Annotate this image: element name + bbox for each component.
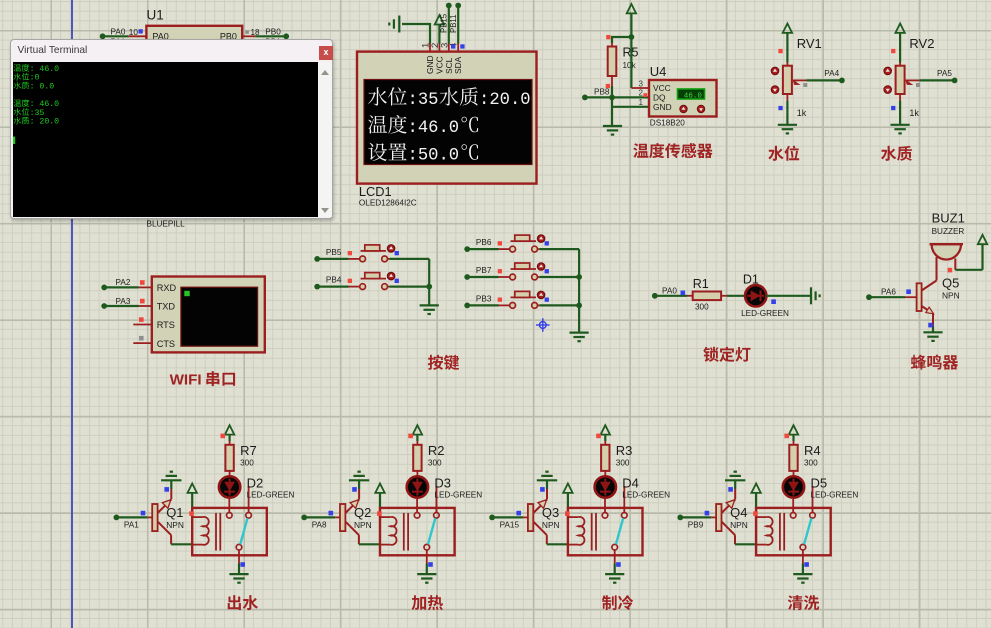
relay contacts Q4 <box>790 486 815 550</box>
svg-text:Q3: Q3 <box>542 505 559 520</box>
transistor Q5 NPN <box>917 257 960 332</box>
ground below relay Q4 <box>793 574 812 583</box>
junction PB7 <box>576 274 582 280</box>
svg-text:PB7: PB7 <box>476 266 492 275</box>
svg-text:DS18B20: DS18B20 <box>650 118 685 127</box>
svg-text:D4: D4 <box>622 476 639 491</box>
label 水位 <box>768 146 799 161</box>
svg-text:PB15: PB15 <box>440 13 449 33</box>
wire PB9 to Q4 base <box>677 511 716 530</box>
ground below PB4 <box>420 305 439 314</box>
wire relay Q4 to ground <box>803 550 809 574</box>
svg-text:1: 1 <box>639 98 643 107</box>
terminal title <box>17 45 87 56</box>
wire D2 to relay <box>228 498 230 513</box>
power arrow at buzzer <box>978 235 987 244</box>
svg-text:LED-GREEN: LED-GREEN <box>434 491 482 500</box>
terminal text line1 <box>14 64 60 74</box>
module WIFI serial port <box>152 277 265 353</box>
led D2 LED-GREEN <box>219 476 295 500</box>
wire PA15 to Q3 base <box>489 511 528 530</box>
relay contacts Q2 <box>414 486 439 550</box>
ground below RV2 <box>891 125 910 134</box>
push button PB3 <box>464 291 579 308</box>
wire PA2 to RXD <box>101 278 152 290</box>
resistor R5 10k <box>606 35 639 97</box>
wire PA0 to R1 <box>652 287 687 299</box>
LCD1 pin numbers 1 2 3 4 <box>421 43 460 48</box>
pin CTS <box>133 336 152 343</box>
resistor R1 300 <box>687 277 727 312</box>
junction PB4 <box>426 284 432 290</box>
svg-text:PA6: PA6 <box>881 288 896 297</box>
svg-text:PA2: PA2 <box>116 278 131 287</box>
wire LCD1 VCC to power <box>438 25 440 53</box>
sheet border line <box>71 0 73 628</box>
wire U1 pin PA0 <box>100 27 147 39</box>
svg-text:PB6: PB6 <box>476 238 492 247</box>
wire RV1 wiper to PA4 <box>803 69 845 87</box>
svg-text:NPN: NPN <box>730 520 748 530</box>
wire PA3 to TXD <box>101 297 152 309</box>
svg-text:RTS: RTS <box>157 320 175 330</box>
terminal text line3 <box>14 82 55 92</box>
transistor Q1 NPN <box>152 480 193 544</box>
wire LCD1 GND to ground <box>402 24 430 52</box>
svg-text:PA1: PA1 <box>124 521 139 530</box>
svg-text:D1: D1 <box>743 273 759 287</box>
power arrow above R7 <box>221 425 235 441</box>
led D3 LED-GREEN <box>407 476 483 500</box>
svg-text:1k: 1k <box>797 108 807 118</box>
svg-text::35: :35 <box>30 109 45 118</box>
node PB8 <box>582 87 615 100</box>
svg-text:NPN: NPN <box>542 520 560 530</box>
LCD1 pin names GND VCC SCL SDA <box>425 55 463 74</box>
ground right of D1 <box>811 287 820 304</box>
wire D1 to ground <box>766 295 811 297</box>
ground below relay Q2 <box>417 574 436 583</box>
ground above Q1 <box>161 472 181 481</box>
svg-text:3: 3 <box>639 79 643 88</box>
svg-text:300: 300 <box>240 459 254 468</box>
svg-text:300: 300 <box>804 459 818 468</box>
svg-text:2: 2 <box>639 89 643 98</box>
origin marker <box>536 318 550 332</box>
OLED display LCD1 <box>357 52 537 208</box>
svg-text:BLUEPILL: BLUEPILL <box>147 219 186 228</box>
svg-text:46.0: 46.0 <box>684 92 703 100</box>
svg-text:Q4: Q4 <box>730 505 747 520</box>
push button PB7 <box>464 263 579 280</box>
svg-text:10: 10 <box>129 28 139 37</box>
power arrow above RV1 <box>783 24 792 63</box>
relay coil Q4 <box>753 508 830 555</box>
svg-text:PB11: PB11 <box>449 15 458 34</box>
wire D3 to relay <box>416 498 418 513</box>
svg-text:D5: D5 <box>811 476 828 491</box>
wire D5 to relay <box>792 498 794 513</box>
push button PB6 <box>464 235 579 252</box>
terminal console <box>13 62 319 217</box>
wire RV2 wiper to PA5 <box>916 69 957 87</box>
wire buttons PB5/PB4 to ground <box>428 259 430 306</box>
wire PB8 to ground <box>611 97 613 126</box>
svg-text:PB0: PB0 <box>265 27 281 36</box>
svg-text:R7: R7 <box>240 443 257 458</box>
svg-text:R4: R4 <box>804 443 821 458</box>
svg-text:TXD: TXD <box>157 302 176 312</box>
svg-text:Q1: Q1 <box>166 505 183 520</box>
pin RTS <box>133 317 152 324</box>
label 蜂鸣器 <box>911 355 958 370</box>
svg-text:300: 300 <box>695 303 709 312</box>
svg-text:D3: D3 <box>434 476 451 491</box>
led D1 LED-GREEN <box>741 273 789 319</box>
RV2 adjust buttons <box>884 67 892 93</box>
wire PA8 to Q2 base <box>301 511 340 530</box>
svg-text:NPN: NPN <box>942 291 960 301</box>
svg-text:R3: R3 <box>616 443 633 458</box>
wire relay Q2 to ground <box>427 550 433 574</box>
LCD1 screen text line1 <box>368 87 530 110</box>
svg-text:300: 300 <box>616 459 630 468</box>
wire SCL net PB15 <box>440 3 456 52</box>
relay contacts Q1 <box>227 486 252 550</box>
power arrow above R2 <box>408 425 422 441</box>
svg-text:GND: GND <box>653 102 672 112</box>
svg-text:10k: 10k <box>623 61 637 70</box>
terminal text line2 <box>14 73 40 83</box>
virtual terminal window <box>10 39 333 218</box>
svg-text:BUZZER: BUZZER <box>932 227 965 236</box>
svg-text:LED-GREEN: LED-GREEN <box>811 491 859 500</box>
label 加热 <box>412 595 443 610</box>
svg-text:1k: 1k <box>909 108 919 118</box>
svg-text:18: 18 <box>251 28 261 37</box>
power arrow at relay Q2 <box>375 484 384 508</box>
svg-text:WIFI: WIFI <box>170 372 202 389</box>
svg-text:BUZ1: BUZ1 <box>932 211 965 226</box>
microcontroller U1 BLUEPILL <box>146 8 242 229</box>
relay coil Q1 <box>189 508 266 555</box>
ground below R5 <box>603 126 622 135</box>
svg-text:RXD: RXD <box>157 283 177 293</box>
relay coil Q3 <box>565 508 643 555</box>
LCD1 screen text line3 <box>368 143 478 166</box>
wire PA1 to Q1 base <box>114 511 153 530</box>
svg-text:Q5: Q5 <box>942 276 959 291</box>
svg-text::35: :35 <box>408 91 439 110</box>
label 出水 <box>228 595 258 610</box>
svg-text:: 20.0: : 20.0 <box>30 118 60 127</box>
relay contacts Q3 <box>602 486 627 550</box>
power arrow at relay Q3 <box>563 484 572 508</box>
svg-text:PA0: PA0 <box>111 27 126 36</box>
terminal text line5 <box>14 108 45 118</box>
svg-text:PB4: PB4 <box>326 276 342 285</box>
wire power to U4 VCC <box>631 37 649 88</box>
power arrow above R5 <box>627 4 636 37</box>
potentiometer RV1 1k <box>778 36 821 125</box>
terminal text line6 <box>14 117 60 127</box>
terminal text line4 <box>14 100 60 110</box>
ground above Q3 <box>537 472 557 481</box>
power arrow at relay Q4 <box>751 484 760 508</box>
ground below Q5 <box>923 332 942 341</box>
wire relay Q1 to ground <box>239 550 245 574</box>
wire PA6 to Q5 base <box>866 288 917 301</box>
svg-text:PB3: PB3 <box>476 295 492 304</box>
svg-text:LED-GREEN: LED-GREEN <box>622 491 670 500</box>
terminal scrollbar <box>318 62 332 217</box>
svg-text::0: :0 <box>30 74 40 83</box>
ground below PB3 <box>570 333 589 342</box>
wire relay Q3 to ground <box>615 550 621 574</box>
svg-text:PA0: PA0 <box>662 287 677 296</box>
node junction R5/U4 VCC <box>629 34 635 40</box>
terminal cursor <box>13 137 15 144</box>
terminal close button <box>319 46 333 60</box>
svg-text:LCD1: LCD1 <box>359 184 392 199</box>
ground below RV1 <box>778 125 797 134</box>
svg-text:NPN: NPN <box>354 520 372 530</box>
svg-text:PA5: PA5 <box>937 69 952 78</box>
label 锁定灯 <box>703 347 750 362</box>
svg-text:CTS: CTS <box>157 339 175 349</box>
svg-text::20.0: :20.0 <box>479 91 531 110</box>
svg-text:: 0.0: : 0.0 <box>30 83 55 92</box>
svg-text:PB5: PB5 <box>326 248 342 257</box>
relay switch arm Q1 <box>240 518 247 544</box>
svg-text:SDA: SDA <box>453 56 463 74</box>
label 温度传感器 <box>633 143 712 158</box>
push button PB4 <box>314 272 429 289</box>
wire buzzer to power <box>948 244 983 272</box>
relay switch arm Q3 <box>616 518 623 544</box>
U1 second pin row PA1/PB1 (behind terminal) <box>111 37 282 47</box>
label 制冷 <box>602 595 633 610</box>
ground below relay Q3 <box>605 574 624 583</box>
svg-text:R1: R1 <box>693 277 709 291</box>
svg-text:Q2: Q2 <box>354 505 371 520</box>
label 清洗 <box>788 595 819 610</box>
resistor R3 300 <box>601 441 632 477</box>
potentiometer RV2 1k <box>891 36 934 125</box>
svg-text:PB9: PB9 <box>688 521 704 530</box>
svg-text:300: 300 <box>428 459 442 468</box>
relay switch arm Q2 <box>428 518 435 544</box>
resistor R4 300 <box>789 441 820 477</box>
sensor U4 DS18B20 <box>639 64 717 127</box>
ground above Q4 <box>725 472 745 481</box>
wire buttons PB6/PB7/PB3 to ground <box>578 249 580 333</box>
svg-text:PA3: PA3 <box>116 297 131 306</box>
wire PB8 to U4 DQ <box>612 96 649 98</box>
wire U4 GND <box>612 106 649 108</box>
ground at LCD1 GND <box>389 16 399 33</box>
svg-text:PA15: PA15 <box>500 521 520 530</box>
svg-text:LED-GREEN: LED-GREEN <box>247 491 295 500</box>
label 水质 <box>881 146 912 161</box>
LCD1 screen text line2 <box>368 115 478 138</box>
wire SDA net PB11 <box>449 3 465 52</box>
svg-text:NPN: NPN <box>166 520 184 530</box>
power arrow above R4 <box>784 425 798 441</box>
junction PB3 <box>576 303 582 309</box>
svg-text:RV2: RV2 <box>909 36 934 51</box>
label WIFI串口 <box>170 371 236 389</box>
svg-text::46.0: :46.0 <box>408 119 460 138</box>
transistor Q4 NPN <box>716 480 757 544</box>
svg-text:U1: U1 <box>147 8 164 23</box>
svg-text:U4: U4 <box>650 64 667 79</box>
led D4 LED-GREEN <box>595 476 671 500</box>
svg-text:R2: R2 <box>428 443 445 458</box>
svg-text:OLED12864I2C: OLED12864I2C <box>359 199 417 208</box>
svg-text:RV1: RV1 <box>797 36 822 51</box>
power arrow above RV2 <box>895 24 904 63</box>
resistor R2 300 <box>413 441 444 477</box>
transistor Q3 NPN <box>528 480 569 544</box>
svg-text:PA4: PA4 <box>824 69 839 78</box>
ground above Q2 <box>349 472 369 481</box>
label 按键 <box>428 355 459 370</box>
transistor Q2 NPN <box>340 480 381 544</box>
relay switch arm Q4 <box>804 518 811 544</box>
svg-text:PA8: PA8 <box>312 521 327 530</box>
power arrow above R3 <box>596 425 610 441</box>
wire R1 to D1 <box>727 295 745 297</box>
svg-text:PB8: PB8 <box>594 87 610 96</box>
buzzer BUZ1 <box>930 211 965 260</box>
RV1 adjust buttons <box>771 67 779 93</box>
relay coil Q2 <box>377 508 455 555</box>
led D5 LED-GREEN <box>783 476 859 500</box>
wire U1 pin PB0 <box>242 27 289 39</box>
svg-text:: 46.0: : 46.0 <box>30 65 60 74</box>
svg-text:D2: D2 <box>247 476 264 491</box>
power arrow at LCD1 VCC <box>435 15 444 24</box>
wire D4 to relay <box>604 498 606 513</box>
svg-text:LED-GREEN: LED-GREEN <box>741 309 789 318</box>
ground below relay Q1 <box>229 574 248 583</box>
power arrow at relay Q1 <box>188 484 197 508</box>
resistor R7 300 <box>225 441 256 477</box>
svg-text::50.0: :50.0 <box>408 147 460 166</box>
svg-text:: 46.0: : 46.0 <box>30 100 60 109</box>
push button PB5 <box>314 245 429 262</box>
